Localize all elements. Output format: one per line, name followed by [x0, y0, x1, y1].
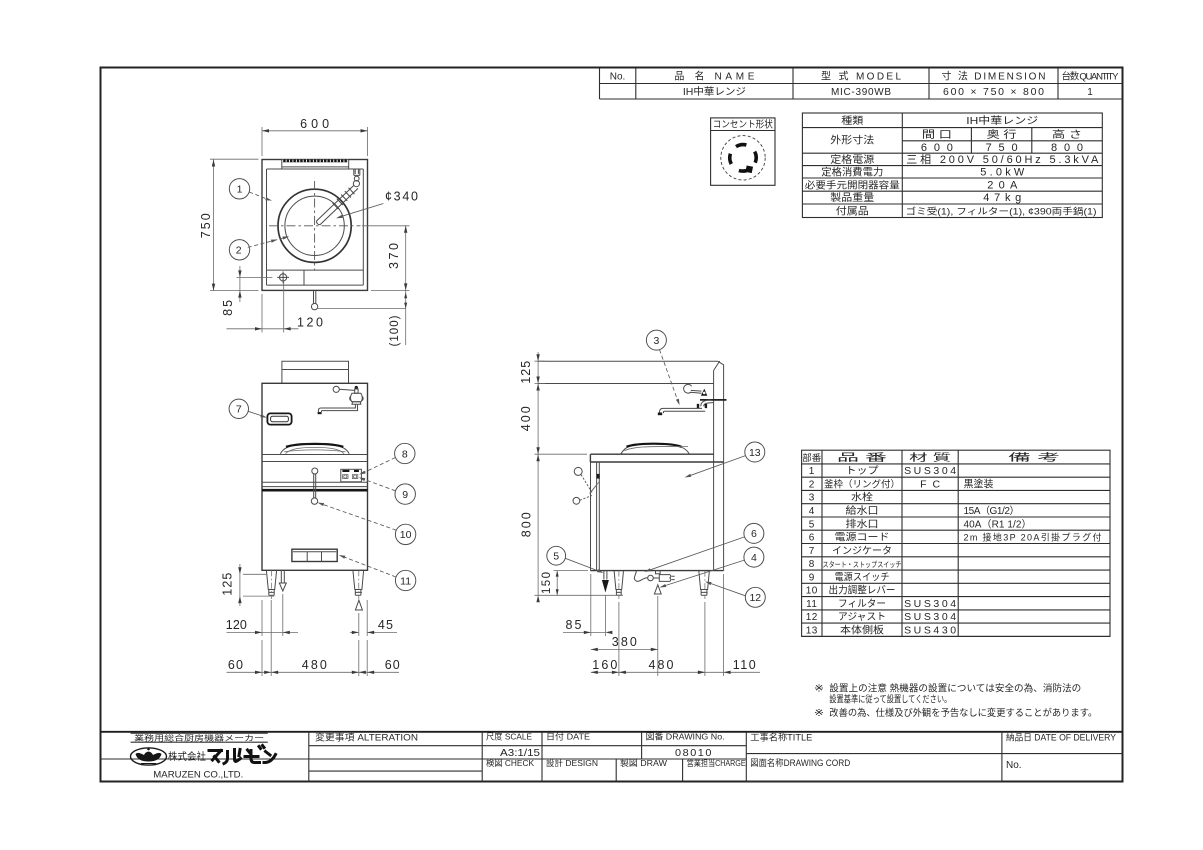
svg-text:10: 10: [806, 586, 818, 597]
svg-text:検図 CHECK: 検図 CHECK: [486, 758, 534, 768]
svg-text:120: 120: [226, 618, 247, 632]
dim 45 front: [359, 600, 367, 636]
svg-text:6: 6: [751, 528, 757, 540]
front faucet: [333, 386, 339, 392]
svg-text:設計 DESIGN: 設計 DESIGN: [546, 758, 598, 768]
svg-text:13: 13: [749, 447, 761, 459]
svg-text:45: 45: [378, 618, 393, 632]
svg-text:120: 120: [297, 315, 323, 329]
svg-text:5: 5: [809, 519, 815, 530]
svg-text:アジャスト: アジャスト: [838, 612, 886, 623]
dim 380 side: [657, 596, 659, 676]
svg-text:IH中華レンジ: IH中華レンジ: [966, 114, 1038, 127]
side drain + filled arrow: [604, 571, 607, 580]
balloon 1 (top plate): [229, 179, 249, 199]
svg-text:2: 2: [809, 480, 815, 491]
side back panel: [714, 361, 724, 571]
title block: [101, 731, 1123, 733]
plan view inner panel: [267, 169, 364, 285]
svg-text:奥 行: 奥 行: [987, 128, 1017, 141]
svg-text:IH中華レンジ: IH中華レンジ: [683, 85, 746, 98]
dim 600 (plan top): [262, 127, 368, 156]
svg-text:800: 800: [519, 512, 533, 537]
lever knob (10): [311, 498, 317, 504]
svg-text:備 考: 備 考: [1008, 451, 1060, 464]
svg-text:MIC-390WB: MIC-390WB: [831, 87, 891, 98]
balloon 3 (water tap): [646, 330, 666, 350]
front bottom dims 60 480 60: [262, 600, 367, 676]
svg-text:¢340: ¢340: [385, 190, 418, 204]
svg-text:(100): (100): [389, 315, 401, 346]
svg-text:台数 QUANTITY: 台数 QUANTITY: [1062, 71, 1120, 83]
svg-text:60: 60: [385, 658, 400, 672]
power inlet symbol: [280, 274, 287, 281]
side faucet: [684, 384, 692, 393]
svg-text:9: 9: [402, 489, 408, 501]
svg-text:電源コード: 電源コード: [835, 531, 890, 544]
dim 120 (plan bottom): [262, 282, 284, 333]
svg-text:間 口: 間 口: [922, 129, 952, 141]
svg-text:13: 13: [806, 625, 818, 636]
balloon 9 (power switch): [395, 484, 415, 504]
maruzen katakana logotype (hand drawn): [209, 746, 276, 764]
svg-text:高 さ: 高 さ: [1052, 128, 1082, 141]
svg-text:3: 3: [653, 335, 659, 347]
dim 120 front: [262, 594, 283, 636]
svg-text:160: 160: [592, 658, 617, 672]
svg-text:1: 1: [809, 466, 815, 477]
svg-text:480: 480: [649, 658, 674, 672]
balloon 7 (indicator): [229, 399, 248, 418]
dim 750 (plan left): [210, 159, 259, 290]
svg-text:付属品: 付属品: [836, 204, 869, 217]
svg-text:11: 11: [400, 575, 411, 587]
front view body: [262, 383, 368, 570]
power cord: [634, 571, 647, 582]
svg-text:寸 法 DIMENSION: 寸 法 DIMENSION: [942, 70, 1046, 83]
svg-text:スタート・ストップスイッチ: スタート・ストップスイッチ: [823, 560, 902, 569]
svg-text:改善の為、仕様及び外観を予告なしに変更することがあります。: 改善の為、仕様及び外観を予告なしに変更することがあります。: [829, 707, 1097, 719]
balloon 11 (filter): [395, 570, 415, 590]
svg-text:定格電源: 定格電源: [830, 153, 874, 166]
svg-text:600: 600: [300, 117, 329, 131]
svg-text:業務用総合厨房機器メーカー: 業務用総合厨房機器メーカー: [134, 732, 264, 742]
locking plug symbol: [721, 136, 765, 180]
svg-text:11: 11: [806, 599, 817, 610]
svg-text:工事名称TITLE: 工事名称TITLE: [750, 732, 812, 743]
svg-text:外形寸法: 外形寸法: [830, 134, 874, 147]
svg-text:部番: 部番: [802, 452, 821, 463]
vent grille panel: [282, 160, 349, 170]
svg-text:※: ※: [814, 708, 824, 719]
svg-text:材 質: 材 質: [909, 451, 951, 464]
svg-text:排水口: 排水口: [846, 517, 879, 530]
svg-text:設置上の注意 熱機器の設置については安全の為、消防法の: 設置上の注意 熱機器の設置については安全の為、消防法の: [829, 682, 1081, 694]
svg-text:12: 12: [749, 592, 761, 604]
svg-text:600: 600: [921, 142, 953, 154]
svg-text:7: 7: [809, 546, 815, 557]
svg-text:給水口: 給水口: [846, 504, 879, 517]
adjuster up arrow right leg: [355, 600, 362, 610]
drain pipe below (plan): [314, 290, 316, 303]
balloon 10 (output lever): [395, 524, 415, 544]
svg-text:3: 3: [809, 493, 815, 504]
svg-text:150: 150: [541, 572, 553, 594]
svg-text:図面名称DRAWING CORD: 図面名称DRAWING CORD: [750, 757, 850, 768]
svg-text:営業担当CHARGE: 営業担当CHARGE: [687, 758, 746, 768]
svg-text:コンセント形状: コンセント形状: [713, 119, 773, 131]
front spout: [318, 405, 357, 412]
svg-text:110: 110: [733, 658, 756, 672]
svg-text:480: 480: [302, 658, 327, 672]
svg-text:出力調整レバー: 出力調整レバー: [829, 584, 896, 597]
svg-text:製品重量: 製品重量: [830, 191, 874, 204]
dim 370 / (100) (plan right): [362, 225, 410, 227]
svg-text:黒塗装: 黒塗装: [964, 478, 994, 491]
balloon 6 (power cord): [744, 523, 764, 543]
pot ring outer circle: [278, 189, 351, 262]
svg-text:本体側板: 本体側板: [840, 623, 884, 636]
svg-text:10: 10: [400, 529, 412, 541]
front drain + arrow: [281, 570, 284, 582]
front view chimney: [282, 361, 349, 383]
svg-text:800: 800: [1051, 142, 1083, 154]
svg-text:図番 DRAWING No.: 図番 DRAWING No.: [646, 732, 725, 742]
side knobs + projection: [574, 467, 582, 475]
svg-text:4: 4: [751, 552, 757, 564]
svg-text:08010: 08010: [675, 747, 713, 759]
svg-text:380: 380: [612, 635, 637, 649]
svg-text:750: 750: [199, 213, 213, 238]
dim 85 (plan): [237, 276, 273, 278]
svg-text:必要手元開閉器容量: 必要手元開閉器容量: [805, 179, 901, 191]
indicator (7): [267, 413, 291, 424]
svg-text:設置基準に従って設置してください。: 設置基準に従って設置してください。: [829, 694, 951, 706]
svg-text:2: 2: [236, 245, 242, 257]
balloon 12 (adjuster): [745, 587, 765, 607]
svg-text:製図 DRAW: 製図 DRAW: [620, 758, 667, 768]
svg-text:電源スイッチ: 電源スイッチ: [835, 570, 890, 583]
balloon 8 (start/stop switch): [395, 443, 415, 463]
switch panel (8/9): [341, 469, 362, 482]
svg-text:370: 370: [387, 243, 401, 269]
svg-text:8: 8: [809, 559, 815, 570]
svg-text:400: 400: [519, 406, 533, 431]
svg-text:MARUZEN CO.,LTD.: MARUZEN CO.,LTD.: [153, 770, 243, 780]
name/model table: [600, 69, 1059, 100]
side dim column 125/400/800: [535, 361, 624, 595]
svg-text:5: 5: [553, 551, 559, 563]
svg-text:株式会社: 株式会社: [168, 750, 206, 763]
svg-text:20A: 20A: [987, 179, 1018, 191]
svg-text:種類: 種類: [841, 114, 863, 127]
svg-text:6: 6: [809, 533, 815, 544]
logo oval + bird: [131, 748, 167, 765]
side wok bump: [621, 443, 690, 454]
start-stop button + lever: [312, 468, 318, 474]
svg-text:尺度 SCALE: 尺度 SCALE: [486, 732, 532, 742]
svg-text:※: ※: [814, 683, 824, 694]
side front face: [591, 462, 600, 571]
svg-text:15A（G1/2）: 15A（G1/2）: [964, 505, 1020, 517]
control strip (plan): [267, 270, 364, 285]
svg-text:ゴミ受(1), フィルター(1), ¢390両手鍋(1): ゴミ受(1), フィルター(1), ¢390両手鍋(1): [906, 205, 1097, 216]
dim 150 side: [554, 570, 589, 572]
side view top shelf lines: [538, 361, 718, 383]
plan view outer body 600x750: [262, 160, 368, 291]
svg-text:品 番: 品 番: [837, 452, 887, 464]
svg-text:12: 12: [806, 612, 818, 623]
side counter slab: [590, 454, 723, 462]
faucet arm (plan): [354, 169, 360, 175]
svg-text:125: 125: [519, 361, 533, 384]
front wok ring: [280, 444, 349, 454]
drawing border frame: [101, 68, 1123, 782]
side body bottom: [591, 570, 724, 572]
balloon 5 (drain outlet): [547, 546, 566, 565]
svg-text:9: 9: [809, 572, 815, 583]
side legs: [614, 571, 623, 596]
pot opening circle dia340: [285, 196, 344, 255]
svg-text:インジケータ: インジケータ: [832, 545, 892, 557]
front horizontal lines: [262, 455, 368, 487]
balloon 2 (pot ring): [229, 240, 249, 260]
svg-text:A3:1/15: A3:1/15: [500, 747, 540, 759]
dim 85 side: [591, 574, 606, 636]
svg-text:トップ: トップ: [846, 465, 879, 477]
svg-text:型 式 MODEL: 型 式 MODEL: [821, 70, 901, 83]
dim 125 front: [243, 574, 274, 596]
svg-text:1: 1: [237, 184, 243, 196]
balloon 13 (side panel): [745, 442, 765, 462]
svg-text:750: 750: [986, 142, 1018, 154]
svg-text:1: 1: [1087, 87, 1093, 98]
svg-text:8: 8: [402, 448, 408, 460]
svg-text:フィルター: フィルター: [838, 598, 886, 610]
svg-text:60: 60: [228, 658, 243, 672]
svg-text:No.: No.: [1006, 760, 1022, 771]
outlet shape box (konsento keijou): [711, 118, 775, 185]
spec table: [802, 113, 1102, 218]
svg-text:納品日 DATE OF DELIVERY: 納品日 DATE OF DELIVERY: [1006, 732, 1116, 743]
svg-text:No.: No.: [610, 72, 626, 83]
svg-text:125: 125: [221, 573, 235, 596]
svg-text:三相 200V 50/60Hz 5.3kVA: 三相 200V 50/60Hz 5.3kVA: [906, 153, 1099, 166]
svg-text:40A（R1 1/2）: 40A（R1 1/2）: [964, 518, 1032, 530]
balloon 4 (water inlet): [744, 547, 764, 567]
front legs: [266, 570, 276, 595]
svg-text:7: 7: [236, 404, 242, 416]
svg-text:4: 4: [809, 506, 815, 517]
water inlet + up arrow: [656, 571, 661, 574]
side bottom dims 160 480 110: [619, 574, 724, 676]
center lines: [269, 225, 361, 227]
svg-text:日付 DATE: 日付 DATE: [546, 732, 590, 742]
filter grille (11): [292, 549, 337, 561]
svg-text:水栓: 水栓: [851, 491, 873, 504]
svg-text:変更事項 ALTERATION: 変更事項 ALTERATION: [315, 732, 418, 743]
svg-text:釜枠（リング付）: 釜枠（リング付）: [824, 479, 900, 491]
maruzen logo block: [131, 732, 268, 734]
parts table: [802, 450, 1110, 636]
svg-text:定格消費電力: 定格消費電力: [821, 165, 883, 178]
